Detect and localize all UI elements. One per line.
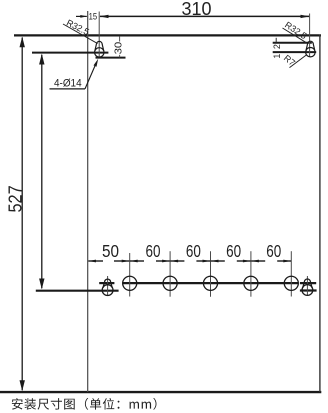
R32.5 left leader xyxy=(63,24,98,44)
right panel edge xyxy=(319,35,321,393)
svg-text:60: 60 xyxy=(146,241,161,261)
top edge line xyxy=(14,34,321,36)
svg-text:60: 60 xyxy=(266,241,281,261)
upper-right flange line C xyxy=(273,42,312,44)
keyhole K1 xyxy=(95,41,104,57)
left panel edge xyxy=(87,11,89,392)
upper-left lower short line xyxy=(96,57,126,59)
hole H4 xyxy=(244,276,258,290)
keyhole K2 xyxy=(306,41,315,57)
R7 leader xyxy=(290,55,307,68)
svg-text:310: 310 xyxy=(181,0,211,19)
bottom line B xyxy=(36,290,119,292)
extension line / keyhole K1 centerline xyxy=(98,12,100,58)
svg-text:60: 60 xyxy=(226,241,241,261)
svg-text:30: 30 xyxy=(113,42,125,55)
dimension 310 xyxy=(99,0,309,19)
hole H2 centerline xyxy=(169,251,171,297)
dimension 50 xyxy=(88,241,129,263)
caption xyxy=(12,398,157,410)
hole H2 xyxy=(163,276,177,290)
svg-text:527: 527 xyxy=(5,185,25,212)
extension line / keyhole K2 centerline xyxy=(309,14,311,57)
keyhole K4 xyxy=(302,279,313,295)
svg-text:4-Ø14: 4-Ø14 xyxy=(54,78,82,90)
svg-text:50: 50 xyxy=(102,241,119,261)
R32.5 right leader xyxy=(283,28,306,42)
line B segment at keyhole K4 xyxy=(300,289,317,291)
dimension 15 xyxy=(76,12,97,23)
dimension 60 (4) xyxy=(251,241,291,263)
dimension 30 xyxy=(113,37,125,58)
hole H3 centerline xyxy=(210,251,212,297)
second vertical dimension line xyxy=(39,54,44,289)
dimension 60 (2) xyxy=(170,241,210,263)
dimension 12 xyxy=(272,38,282,59)
svg-text:60: 60 xyxy=(186,241,201,261)
hole H1 centerline xyxy=(129,253,131,297)
keyhole K4 centerline xyxy=(306,276,308,295)
upper-right flange line D xyxy=(273,51,317,53)
label 4-Ø14 xyxy=(50,59,99,90)
dimension 60 (1) xyxy=(130,241,170,263)
keyhole K3 centerline xyxy=(107,276,109,296)
keyhole K3 xyxy=(102,279,113,295)
dimension 60 (3) xyxy=(211,241,251,263)
bottom border line xyxy=(0,391,321,393)
bottom hole line A xyxy=(123,282,299,284)
line A segment at keyhole K4 xyxy=(300,282,316,284)
hole H4 centerline xyxy=(250,251,252,297)
hole H5 xyxy=(284,276,298,290)
dimension 527 vertical line xyxy=(5,37,25,391)
hole H5 centerline xyxy=(290,251,292,296)
svg-text:15: 15 xyxy=(89,12,98,23)
hole H3 xyxy=(203,276,217,290)
upper-left flange line xyxy=(32,52,108,54)
line A segment at keyhole K3 xyxy=(99,282,114,284)
hole H1 xyxy=(123,276,137,290)
